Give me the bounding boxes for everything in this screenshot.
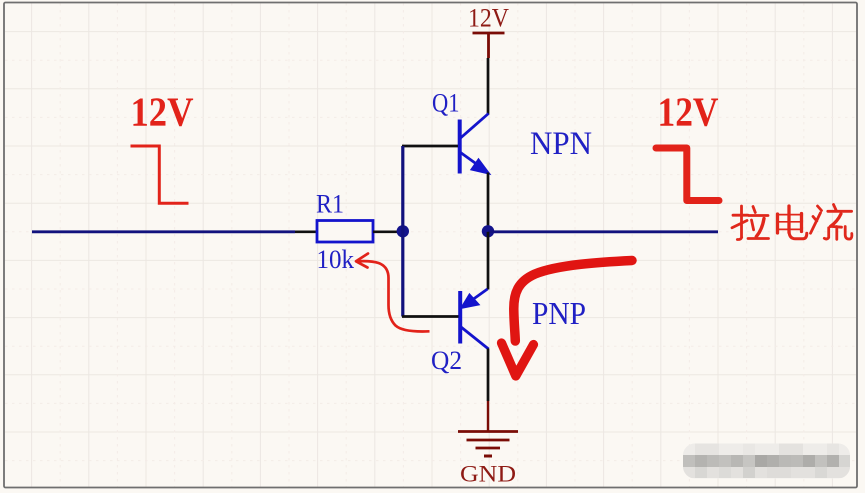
wire: vertical base bus [401,146,404,317]
red annotation arrow (big marker, curving down to PNP) [502,261,633,377]
label PNP [532,295,586,331]
pin: R1 left lead [295,230,317,233]
pin: R1 right lead [373,230,403,233]
watermark mosaic [683,444,850,479]
red annotation 12V (left) [131,89,194,135]
label Q2 [431,346,462,375]
label R1 [316,190,344,219]
label NPN [530,126,592,162]
transistor Q2 (PNP) [460,289,488,349]
power port 12V label [468,3,509,32]
svg-text:10k: 10k [317,245,355,274]
wire: output net to the right [488,230,718,233]
svg-text:Q1: Q1 [432,89,460,118]
pin: Q2 emitter from output node [487,232,490,290]
red annotation 12V (right) [658,89,719,135]
red annotation arrow (small, pointing at 10k) [356,254,430,332]
wire: input net (left) [32,230,295,233]
ground symbol [458,401,518,456]
label GND [460,462,516,487]
red thick step waveform (right) [656,148,719,201]
pin: Q1 emitter to output node [487,173,490,233]
label Q1 [432,89,460,118]
transistor Q1 (NPN) [460,114,489,174]
svg-text:12V: 12V [131,89,194,135]
red text 拉电流 (pull current), drawn strokes [732,205,852,240]
svg-text:GND: GND [460,462,516,487]
red step waveform (left, falling) [131,146,189,203]
pin: Q2 base (black) [402,315,459,318]
resistor R1 [317,221,373,243]
svg-text:Q2: Q2 [431,346,462,375]
pin: Q1 base (black) [402,145,458,148]
node: output junction dot [482,225,494,237]
power port 12V bar symbol [473,33,505,58]
wire: 12V rail to Q1 collector [487,58,490,115]
svg-text:PNP: PNP [532,295,586,331]
value 10k [317,245,355,274]
svg-text:12V: 12V [468,3,509,32]
svg-text:R1: R1 [316,190,344,219]
svg-text:NPN: NPN [530,126,592,162]
node: base node junction dot [397,225,409,237]
svg-text:12V: 12V [658,89,719,135]
pin: Q2 collector to ground [487,349,490,402]
